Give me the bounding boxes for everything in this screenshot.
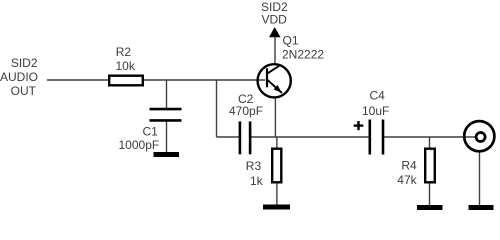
svg-text:OUT: OUT: [11, 84, 37, 98]
svg-text:10k: 10k: [116, 59, 136, 73]
svg-text:SID2: SID2: [11, 56, 38, 70]
svg-text:VDD: VDD: [262, 13, 288, 27]
svg-text:R2: R2: [116, 45, 132, 59]
svg-text:1000pF: 1000pF: [119, 138, 160, 152]
svg-text:Q1: Q1: [283, 34, 299, 48]
svg-text:1k: 1k: [250, 174, 264, 188]
svg-text:R4: R4: [401, 158, 417, 172]
svg-text:10uF: 10uF: [362, 104, 389, 118]
svg-text:C1: C1: [143, 125, 159, 139]
svg-text:R3: R3: [246, 159, 262, 173]
svg-text:470pF: 470pF: [229, 104, 263, 118]
svg-text:C4: C4: [370, 89, 386, 103]
svg-text:2N2222: 2N2222: [282, 47, 324, 61]
svg-text:AUDIO: AUDIO: [0, 70, 38, 84]
svg-text:47k: 47k: [397, 173, 417, 187]
